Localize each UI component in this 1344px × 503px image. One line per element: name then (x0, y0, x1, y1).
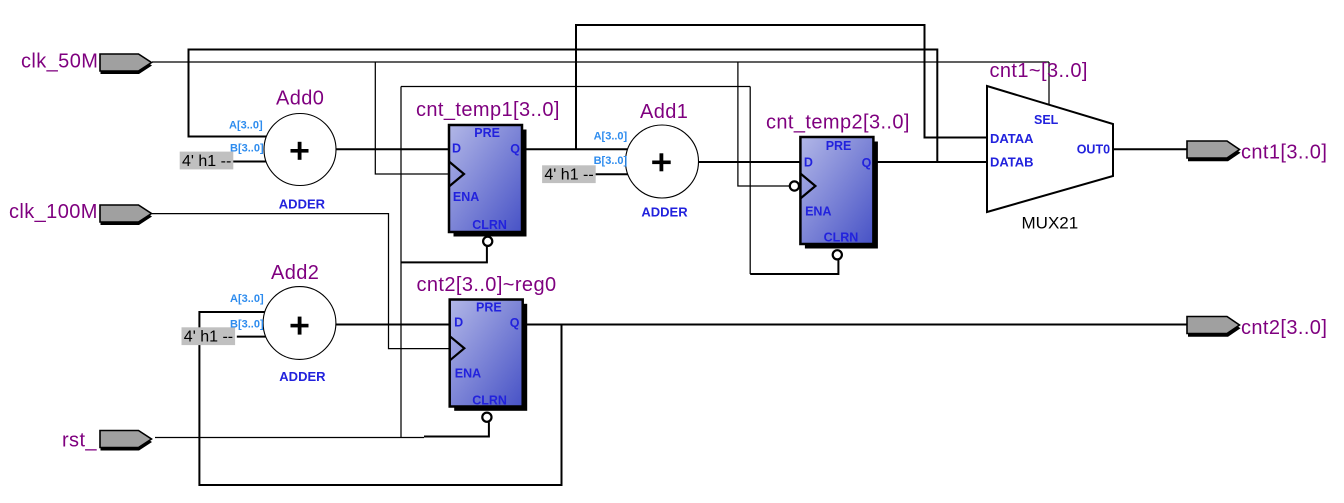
wire bus Add0 B stub (233, 161, 267, 163)
output pin cnt2[3..0] (1187, 317, 1241, 337)
wire net rst_ horizontal (155, 437, 424, 439)
output pin cnt1[3..0] (1187, 141, 1241, 161)
wire bus Add2 A feedback (199, 312, 561, 485)
text ports of cnt_temp1 (452, 126, 520, 232)
wire clk_50M to SEL vertical (1048, 62, 1050, 105)
svg-text:clk_100M: clk_100M (9, 201, 98, 223)
svg-text:PRE: PRE (476, 301, 502, 315)
svg-text:4' h1 --: 4' h1 -- (184, 329, 233, 346)
dff cnt_temp1 (449, 125, 527, 246)
svg-text:A[3..0]: A[3..0] (230, 293, 264, 305)
svg-text:D: D (454, 315, 463, 329)
wire bus Add0 out to D cnt_temp1 (336, 148, 449, 150)
adder Add1 (626, 125, 699, 198)
svg-text:Add0: Add0 (276, 88, 324, 110)
text ports of cnt_temp2 (804, 139, 872, 245)
wire cnt_temp1 CLRN stub (401, 246, 487, 262)
svg-text:OUT0: OUT0 (1077, 143, 1110, 157)
svg-text:B[3..0]: B[3..0] (230, 318, 264, 330)
svg-text:PRE: PRE (826, 139, 852, 153)
wire bus Q cnt_temp2 to MUX DATAB (874, 161, 988, 163)
svg-text:DATAB: DATAB (990, 155, 1034, 170)
svg-text:D: D (804, 156, 813, 170)
svg-text:DATAA: DATAA (990, 131, 1034, 146)
wire bus MUX OUT0 to cnt1 output pin (1113, 148, 1187, 150)
wire clk_50M branch to cnt_temp2 clock bubble (738, 62, 790, 186)
svg-text:cnt1[3..0]: cnt1[3..0] (1241, 141, 1327, 163)
input pin rst_ (100, 431, 152, 451)
wire bus top line1 Q cnt_temp1 to DATAA (576, 25, 987, 149)
svg-text:CLRN: CLRN (472, 218, 507, 232)
wire bus Add2 out to D reg0 (336, 324, 449, 326)
svg-text:B[3..0]: B[3..0] (594, 155, 628, 167)
text ports of reg0 (454, 301, 520, 408)
svg-text:rst_: rst_ (62, 430, 97, 452)
svg-text:ENA: ENA (455, 366, 481, 380)
svg-text:cnt_temp1[3..0]: cnt_temp1[3..0] (416, 99, 560, 121)
dff cnt_temp2 (790, 137, 878, 259)
svg-text:4' h1 --: 4' h1 -- (544, 167, 593, 184)
wire rst_ top run (401, 86, 750, 88)
svg-text:ENA: ENA (453, 190, 479, 204)
svg-text:Q: Q (862, 156, 872, 170)
input pin clk_50M (100, 54, 152, 74)
wire bus Q cnt_temp1 to Add1 A (522, 148, 630, 150)
wire reg0 CLRN stub (424, 422, 489, 436)
svg-text:Q: Q (510, 142, 520, 156)
input pin clk_100M (100, 205, 152, 225)
wire rst_ drop to cnt_temp2 CLRN (749, 87, 751, 275)
text ports of MUX21 (990, 113, 1110, 170)
svg-text:4' h1 --: 4' h1 -- (182, 153, 231, 170)
svg-text:ADDER: ADDER (279, 197, 326, 212)
label 4'h1 constant for Add1 (542, 165, 596, 183)
wire bus Add1 out to D cnt_temp2 (699, 161, 801, 163)
svg-text:cnt2[3..0]~reg0: cnt2[3..0]~reg0 (417, 274, 557, 296)
svg-text:PRE: PRE (474, 126, 500, 140)
svg-text:cnt1~[3..0]: cnt1~[3..0] (990, 60, 1088, 82)
adder Add0 (264, 114, 336, 186)
svg-text:MUX21: MUX21 (1022, 214, 1079, 233)
svg-text:D: D (452, 142, 461, 156)
label 4'h1 constant for Add0 (180, 152, 234, 170)
wire bus Add1 B stub (595, 173, 630, 175)
wire bus Q reg0 to cnt2 output pin (522, 324, 1187, 326)
svg-text:Add1: Add1 (640, 101, 688, 123)
svg-text:ENA: ENA (805, 204, 831, 218)
wire net clk_50M horizontal (152, 61, 1049, 63)
wire bus Add2 B stub (237, 336, 267, 338)
svg-text:SEL: SEL (1034, 113, 1059, 127)
svg-text:CLRN: CLRN (824, 231, 859, 245)
dff cnt2[3..0]~reg0 (449, 300, 527, 422)
wire bus top line2 Q cnt_temp2 to Add0 A (189, 50, 938, 163)
svg-text:ADDER: ADDER (279, 369, 326, 384)
wire net clk_100M (152, 214, 449, 349)
svg-text:clk_50M: clk_50M (21, 51, 98, 73)
wire clk_50M branch to cnt_temp1 clock (375, 62, 449, 174)
label 4'h1 constant for Add2 (182, 327, 236, 345)
svg-text:A[3..0]: A[3..0] (594, 131, 628, 143)
svg-text:B[3..0]: B[3..0] (230, 142, 264, 154)
wire cnt_temp2 CLRN stub (750, 259, 838, 274)
svg-text:A[3..0]: A[3..0] (229, 119, 263, 131)
svg-text:CLRN: CLRN (472, 394, 507, 408)
svg-text:Q: Q (510, 316, 520, 330)
mux U mux21 (987, 86, 1113, 212)
svg-text:Add2: Add2 (271, 262, 319, 284)
svg-text:cnt2[3..0]: cnt2[3..0] (1241, 317, 1327, 339)
wire rst_ vertical riser (400, 87, 402, 438)
adder Add2 (263, 287, 336, 360)
svg-text:ADDER: ADDER (641, 205, 688, 220)
svg-text:cnt_temp2[3..0]: cnt_temp2[3..0] (766, 112, 910, 134)
